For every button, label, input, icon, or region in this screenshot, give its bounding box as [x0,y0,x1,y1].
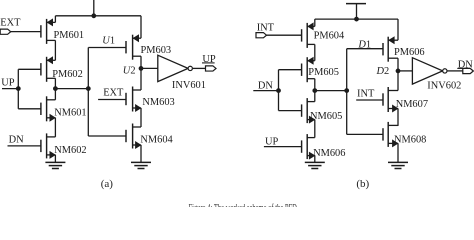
svg-text:INT: INT [357,89,375,100]
wire DN branch vertical [278,70,280,111]
svg-text:DN: DN [258,81,274,92]
wire NM602 source down [54,155,56,162]
wire VDD rail (a) [55,15,141,17]
node U2 junction [139,67,143,71]
svg-text:PM606: PM606 [394,47,425,58]
wire NM603 drain to U2 [140,68,142,90]
transistor PM606 [382,43,384,55]
wire PM606 drain to D2 [397,58,399,71]
svg-text:NM606: NM606 [313,148,345,159]
transistor NM604 [125,130,127,142]
transistor NM607 [382,93,384,105]
svg-text:PM601: PM601 [54,30,85,41]
wire DN to PM605 gate [279,69,302,71]
svg-text:NM603: NM603 [142,97,174,108]
wire node to D1 branch [315,90,347,92]
wire U2 to INV601 [141,67,158,69]
svg-text:UP: UP [1,77,15,88]
underline DN output [457,67,470,69]
transistor PM602 [40,63,42,75]
wire PM601 source to rail [54,16,56,23]
wire node to U1 branch [55,88,88,90]
wire UP to NM601 gate [18,108,41,110]
wire NM606 source down [314,156,316,163]
svg-text:INT: INT [257,23,275,34]
underline UP output [202,62,215,64]
node D1 dot left [313,89,317,93]
wire UP input to NM606 gate [264,146,302,148]
node U1 dot right [86,87,90,91]
wire PM606 source to rail [397,19,399,40]
svg-text:NM601: NM601 [54,108,86,119]
wire PM602 drain to node [54,78,56,88]
node UP junction (a) [16,87,20,91]
wire INT to NM607 gate [356,99,383,101]
wire INV602 output [448,70,463,72]
vdd symbol (b) [346,3,366,5]
wire EXT to NM603 gate [98,99,126,101]
svg-text:D1: D1 [357,39,371,50]
wire U1 branch vertical [87,48,89,137]
svg-text:INV602: INV602 [427,81,461,92]
wire DN to NM605 gate [279,110,302,112]
wire UP branch vertical [17,69,19,109]
wire NM601 source to NM602 [54,118,56,137]
inverter INV601 [158,55,188,81]
wire PM601 drain to PM602 [54,40,56,60]
wire NM605 source to NM606 [314,120,316,138]
wire PM603 drain to U2 [140,56,142,68]
svg-text:Figure 4: The worked scheme of: Figure 4: The worked scheme of the PFD. [189,203,299,207]
svg-text:U1: U1 [102,35,115,46]
wire UP input [2,88,18,90]
svg-text:EXT: EXT [103,88,124,99]
svg-text:(a): (a) [101,178,114,190]
wire D1 to PM606 gate [347,48,383,50]
transistor PM605 [301,64,303,76]
svg-text:UP: UP [265,136,279,147]
svg-text:NM604: NM604 [140,135,173,146]
node D1 dot right [345,89,349,93]
wire PM604 source to rail [314,19,316,26]
ground under NM602 [45,161,65,163]
wire PM605 drain to node [314,79,316,91]
node D2 junction [396,69,400,73]
transistor NM608 [382,128,384,140]
wire NM601 drain to node [54,89,56,100]
svg-text:INV601: INV601 [172,80,206,91]
svg-text:D2: D2 [376,66,390,77]
svg-text:NM608: NM608 [394,134,426,145]
transistor PM603 [125,41,127,53]
wire INV601 output [193,67,206,69]
svg-text:PM605: PM605 [308,67,339,78]
wire D1 branch to NM608 gate [347,133,383,135]
transistor PM601 [40,25,42,37]
wire NM605 drain to node [314,91,316,102]
wire D2 to INV602 [398,70,412,72]
wire EXT to PM601 gate [11,31,41,33]
svg-text:U2: U2 [123,66,136,77]
transistor NM606 [301,140,303,152]
wire U1 to PM603 gate [88,47,126,49]
svg-text:PM602: PM602 [52,69,83,80]
svg-text:PM604: PM604 [314,30,345,41]
vdd stub (a) [93,0,95,16]
svg-text:DN: DN [9,134,25,145]
svg-text:(b): (b) [356,178,369,190]
wire D1 branch vertical [346,49,348,135]
wire DN input to NM602 gate [8,145,41,147]
port UP output [206,66,217,71]
ground under NM606 [305,161,325,163]
ground under NM604 [131,161,151,163]
wire NM603 source to NM604 [140,108,142,127]
node U1 dot left [54,87,58,91]
wire VDD rail (b) [315,18,398,20]
ground under NM608 [388,161,408,163]
wire NM604 source down [140,145,142,162]
wire INT to PM604 gate [267,34,302,36]
wire NM608 source down [397,143,399,162]
node DN junction (b) [277,89,281,93]
svg-text:NM607: NM607 [396,99,428,110]
transistor PM604 [301,29,303,41]
port INT input (b) [256,33,267,38]
port EXT input (a) [0,29,11,34]
inverter INV602 [412,58,442,84]
wire NM607 source to NM608 [397,109,399,126]
wire UP to PM602 gate [18,68,41,70]
wire U1 branch to NM604 gate [88,135,126,137]
svg-text:PM603: PM603 [141,45,172,56]
svg-text:NM602: NM602 [54,145,86,156]
port DN output [463,68,474,73]
wire NM607 drain to D2 [397,71,399,91]
transistor NM603 [125,93,127,105]
transistor NM602 [40,140,42,152]
svg-text:EXT: EXT [0,18,21,29]
transistor NM605 [301,104,303,116]
wire PM603 source to rail [140,16,142,38]
transistor NM601 [40,103,42,115]
wire PM604 drain to PM605 [314,44,316,60]
wire DN input [253,90,278,92]
